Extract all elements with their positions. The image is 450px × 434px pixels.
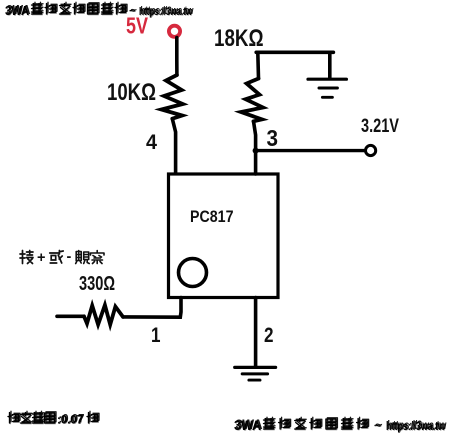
label probe note: glyph 察 [91, 251, 105, 264]
svg-text:2: 2 [264, 323, 274, 347]
resistor R2 18KΩ zigzag [241, 79, 263, 122]
wire node 3 to output terminal [256, 149, 364, 152]
label probe note: glyph 觀 [76, 251, 90, 264]
svg-text:-: - [67, 249, 72, 265]
watermark bottom-right: 3WA + garbled CJK + ~ https://3wa.tw (ghost doubled) [234, 418, 445, 433]
LED indicator circle inside U1 [179, 259, 207, 287]
svg-text:10KΩ: 10KΩ [107, 79, 156, 106]
ground symbol top right [308, 78, 346, 81]
label probe note: glyph 接 [20, 251, 33, 264]
svg-text:+: + [37, 250, 45, 266]
svg-text:1: 1 [151, 323, 161, 347]
terminal output 3.21V (black ring) [366, 145, 376, 155]
svg-text:330Ω: 330Ω [79, 273, 115, 295]
svg-text:3.21V: 3.21V [361, 116, 399, 137]
svg-text:5V: 5V [126, 13, 149, 39]
ground symbol bottom [235, 366, 276, 369]
wire pin 3 stub (node to box top) [254, 151, 258, 175]
wire R1 to pin 4 [172, 119, 175, 174]
wire top horizontal to ground stub [256, 50, 333, 54]
resistor R3 330Ω zigzag [84, 305, 123, 325]
watermark top: 3WA + garbled CJK + ~ https://3wa.tw (ghost doubled) [5, 3, 192, 18]
wire 5V terminal to R1 [175, 38, 179, 76]
terminal 5V (red ring) [169, 26, 180, 37]
wire pin 1 stub [123, 298, 181, 318]
wire left lead of R3 [57, 314, 84, 318]
wire ground stub (top right) [328, 52, 332, 78]
svg-text:18KΩ: 18KΩ [214, 25, 264, 52]
node 3 junction dot [253, 148, 259, 154]
svg-text:4: 4 [146, 130, 157, 154]
wire R2 top riser [256, 52, 260, 78]
watermark bottom-left: load-time text (ghost doubled) [8, 413, 98, 427]
svg-text:PC817: PC817 [190, 207, 234, 226]
wire pin 2 to ground [254, 298, 258, 367]
svg-text:3: 3 [267, 125, 279, 151]
optocoupler U1 PC817 body [169, 174, 279, 298]
wire R2 bottom to node 3 [254, 121, 256, 150]
resistor R1 10KΩ zigzag [161, 75, 182, 119]
label probe note: glyph 或 [50, 251, 64, 264]
